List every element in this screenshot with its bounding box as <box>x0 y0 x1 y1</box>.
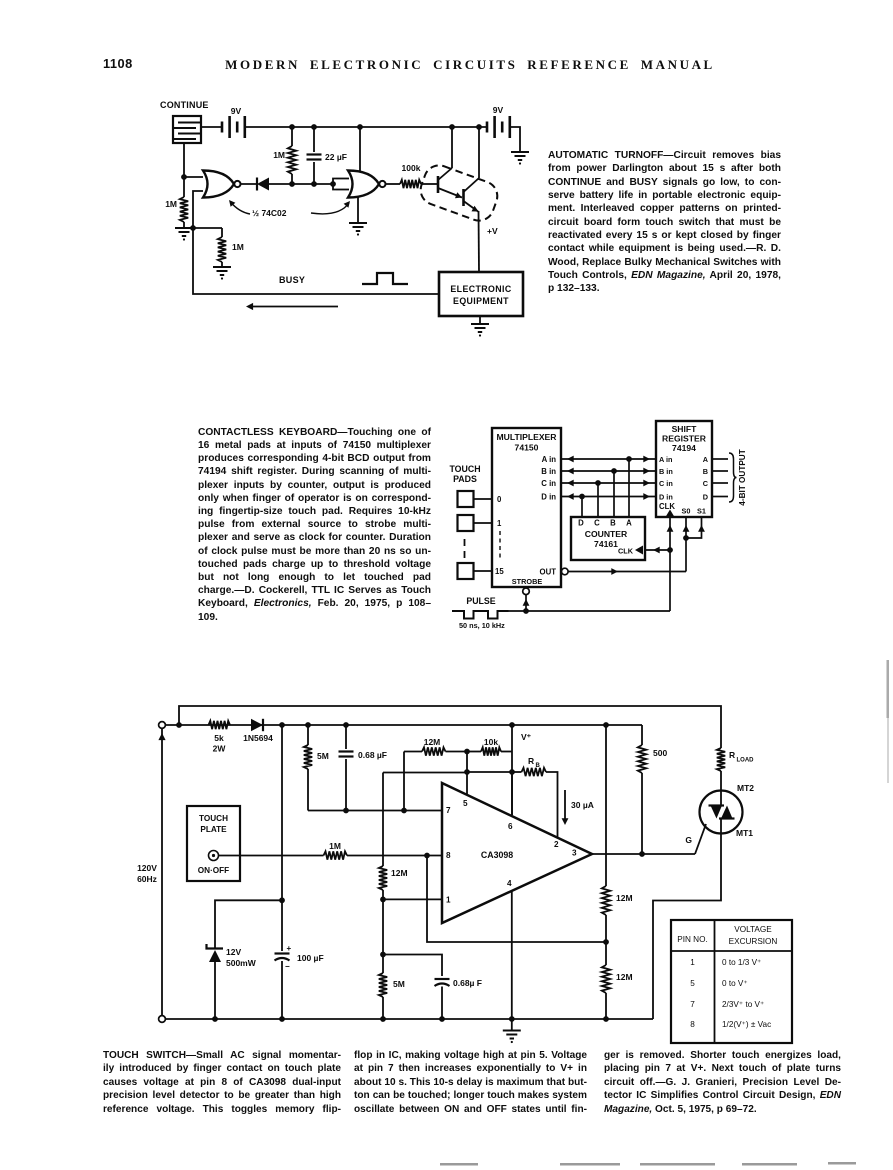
svg-text:1: 1 <box>446 896 451 905</box>
wire pin8 line right <box>347 855 442 857</box>
svg-text:2W: 2W <box>213 744 227 754</box>
svg-text:TOUCH: TOUCH <box>199 814 228 823</box>
label G <box>685 835 692 845</box>
wire counter A <box>628 459 630 517</box>
svg-text:0: 0 <box>497 495 502 504</box>
capacitor C2 0.68uF <box>339 725 388 811</box>
node rail-5M <box>305 722 311 728</box>
svg-text:120V: 120V <box>137 863 157 873</box>
wire pin8 branch down <box>427 856 606 943</box>
pin label B in (mux) <box>541 467 556 476</box>
mux OUT bubble <box>562 568 569 575</box>
label 120V 60Hz <box>137 863 157 884</box>
node rail-outer <box>176 722 182 728</box>
label 4-BIT OUTPUT <box>738 449 747 505</box>
node C2-pin7 <box>343 808 349 814</box>
svg-text:4-BIT OUTPUT: 4-BIT OUTPUT <box>738 449 747 505</box>
label 1/2 74C02 with arrows <box>229 200 350 218</box>
svg-text:9V: 9V <box>493 105 504 115</box>
svg-text:12M: 12M <box>616 972 633 982</box>
svg-text:22 µF: 22 µF <box>325 152 347 162</box>
svg-text:R: R <box>528 756 534 766</box>
dashed line inside mux <box>499 531 501 560</box>
svg-text:CONTINUE: CONTINUE <box>160 100 209 110</box>
wire pin7 line <box>308 810 442 812</box>
brace 4-bit output <box>729 453 737 502</box>
wire top rail <box>165 724 642 726</box>
svg-text:+V: +V <box>487 226 498 236</box>
svg-text:C in: C in <box>541 479 556 488</box>
touch pad 15 <box>458 563 493 579</box>
svg-text:STROBE: STROBE <box>512 577 543 586</box>
wire A line <box>561 456 656 463</box>
wire OUT to S0 <box>568 568 686 575</box>
touch pad 1 <box>458 515 493 531</box>
resistor R9 RB <box>512 756 558 838</box>
box SHIFT REGISTER 74194 <box>656 421 712 517</box>
svg-text:2: 2 <box>554 840 559 849</box>
resistor R8 10k <box>467 737 512 756</box>
ground below R3 <box>213 267 231 280</box>
pin label 15 <box>495 567 504 576</box>
transistor Q2 <box>464 127 480 272</box>
svg-text:ELECTRONIC: ELECTRONIC <box>450 284 511 294</box>
svg-text:5: 5 <box>463 799 468 808</box>
svg-text:60Hz: 60Hz <box>137 874 157 884</box>
resistor R15 12M <box>602 942 633 1019</box>
svg-text:8: 8 <box>446 851 451 860</box>
svg-text:+: + <box>287 944 292 953</box>
dashed outline around Darlington <box>416 161 501 225</box>
svg-text:MT1: MT1 <box>736 828 753 838</box>
label BUSY <box>279 275 305 285</box>
svg-text:D: D <box>703 493 708 502</box>
svg-text:SHIFT: SHIFT <box>672 424 698 434</box>
svg-text:1M: 1M <box>165 199 177 209</box>
svg-text:10k: 10k <box>484 737 498 747</box>
node D1-R1 <box>289 181 295 187</box>
node 5M2 top <box>380 952 386 958</box>
node rail-C1 <box>311 124 317 130</box>
svg-text:CLK: CLK <box>618 547 634 556</box>
svg-text:V⁺: V⁺ <box>521 732 532 742</box>
node rail-V+ <box>509 722 515 728</box>
svg-text:1M: 1M <box>232 242 244 252</box>
arrow 30uA <box>562 790 594 825</box>
wire 12M divider top <box>605 725 607 886</box>
label PULSE <box>466 596 495 606</box>
BUSY pulse waveform <box>362 273 408 284</box>
node rb row <box>509 769 515 775</box>
svg-text:100 µF: 100 µF <box>297 953 324 963</box>
svg-text:12M: 12M <box>616 893 633 903</box>
node btm pin4 <box>509 1016 515 1022</box>
capacitor C3 100uF <box>275 944 324 1019</box>
svg-text:B: B <box>703 467 708 476</box>
svg-text:C: C <box>703 479 709 488</box>
resistor R7 12M feedback <box>404 737 467 756</box>
wire SR output C <box>712 482 728 484</box>
node rail-C2 <box>343 722 349 728</box>
node D-counter <box>579 494 585 500</box>
svg-text:0.68 µF: 0.68 µF <box>358 750 387 760</box>
svg-text:PADS: PADS <box>453 474 477 484</box>
svg-text:D in: D in <box>659 493 673 502</box>
wire SR output B <box>712 470 728 472</box>
svg-text:12V: 12V <box>226 947 241 957</box>
pin label 0 <box>497 495 502 504</box>
ground below G2 <box>349 223 367 236</box>
node btm C3 <box>279 1016 285 1022</box>
node pin1 left <box>380 897 386 903</box>
svg-text:D in: D in <box>541 493 556 502</box>
terminal bottom-left <box>159 1016 166 1023</box>
ground main <box>503 1019 521 1043</box>
svg-text:B: B <box>536 763 541 769</box>
wire CLK to counter <box>645 547 670 554</box>
pin label S0 <box>682 507 691 516</box>
touch pad 0 <box>458 491 493 507</box>
node rail-12Mdiv <box>603 722 609 728</box>
node A-counter <box>626 456 632 462</box>
svg-text:74161: 74161 <box>594 539 618 549</box>
svg-text:REGISTER: REGISTER <box>662 434 707 444</box>
svg-text:VOLTAGE: VOLTAGE <box>734 925 772 934</box>
svg-text:1: 1 <box>690 958 695 967</box>
op NOR gate G1 (1/2 74C02) <box>203 171 240 198</box>
wire pulse line to CLK <box>509 610 671 612</box>
pin label S1 <box>697 507 706 516</box>
wire pad to battery B1 <box>201 126 222 128</box>
ground right of B2 <box>511 152 529 165</box>
node fb-pin7 <box>401 808 407 814</box>
svg-text:OUT: OUT <box>540 568 557 577</box>
wire D line <box>561 493 656 500</box>
svg-text:5: 5 <box>690 979 695 988</box>
svg-text:7: 7 <box>446 806 451 815</box>
svg-text:30 µA: 30 µA <box>571 800 594 810</box>
diode D1 <box>257 178 292 191</box>
wire <box>292 183 314 185</box>
wire zener branch <box>215 900 282 949</box>
label +V <box>487 226 498 236</box>
wire battery B2 to ground <box>510 127 520 151</box>
wire pin8 line left <box>219 855 324 857</box>
svg-text:500mW: 500mW <box>226 958 257 968</box>
svg-text:3: 3 <box>572 849 577 858</box>
svg-text:4: 4 <box>507 879 512 888</box>
pin label D in (sr) <box>659 493 673 502</box>
pin label C (sr out) <box>703 479 709 488</box>
node zener branch <box>279 897 285 903</box>
resistor R11 12M vertical <box>379 773 408 900</box>
svg-text:PULSE: PULSE <box>466 596 495 606</box>
node btm 5M <box>380 1016 386 1022</box>
svg-text:LOAD: LOAD <box>737 758 755 764</box>
wire counter B <box>613 471 615 517</box>
svg-text:COUNTER: COUNTER <box>585 529 628 539</box>
svg-text:B in: B in <box>541 467 556 476</box>
node divider mid <box>603 939 609 945</box>
svg-text:9V: 9V <box>231 106 242 116</box>
label TOUCH PADS <box>449 464 480 484</box>
wire C line <box>561 480 656 487</box>
svg-text:0.68µ F: 0.68µ F <box>453 978 482 988</box>
node btm zener <box>212 1016 218 1022</box>
svg-text:1N5694: 1N5694 <box>243 733 273 743</box>
wire pin1 line <box>383 898 442 900</box>
box MULTIPLEXER 74150 <box>492 428 561 587</box>
svg-text:50 ns, 10 kHz: 50 ns, 10 kHz <box>459 621 505 630</box>
node CLK junction <box>667 547 673 553</box>
wire pin6 stub <box>511 772 513 815</box>
pin label STROBE <box>512 577 543 586</box>
pin label 3 <box>572 849 577 858</box>
arrow signal direction <box>246 303 338 310</box>
node C-counter <box>595 480 601 486</box>
svg-text:EXCURSION: EXCURSION <box>729 937 778 946</box>
resistor R1 1M <box>273 127 296 184</box>
svg-text:12M: 12M <box>424 737 441 747</box>
wire fb down <box>403 752 405 811</box>
pin label 2 <box>554 840 559 849</box>
svg-text:7: 7 <box>690 1000 695 1009</box>
svg-text:0 to V⁺: 0 to V⁺ <box>722 979 748 988</box>
pulse waveform 50ns <box>452 611 509 619</box>
wire S0 vertical <box>683 517 690 572</box>
wire V+ vertical pin6 <box>511 725 513 815</box>
wire node to R3 <box>193 227 222 229</box>
pin label 4 <box>507 879 512 888</box>
pin label D (sr out) <box>703 493 708 502</box>
resistor R14 12M <box>602 886 633 942</box>
wire pin5 vertical <box>466 752 468 796</box>
mux STROBE bubble <box>523 588 530 595</box>
capacitor C1 22 µF <box>307 127 347 184</box>
node fb mid <box>464 749 470 755</box>
pin label C in (mux) <box>541 479 556 488</box>
svg-text:15: 15 <box>495 567 504 576</box>
wire MT1 return <box>653 834 721 1020</box>
pin label 1 <box>497 519 502 528</box>
svg-text:BUSY: BUSY <box>279 275 305 285</box>
resistor R5 5k 2W <box>209 721 231 754</box>
svg-text:MT2: MT2 <box>737 783 754 793</box>
svg-text:A: A <box>703 455 709 464</box>
pin label 8 <box>446 851 451 860</box>
wire gate1 lower input feedback <box>193 191 203 228</box>
wire top rail <box>245 126 487 128</box>
svg-text:D: D <box>578 519 584 528</box>
svg-text:G: G <box>685 835 692 845</box>
wire SR output A <box>712 458 728 460</box>
svg-text:MULTIPLEXER: MULTIPLEXER <box>497 432 558 442</box>
wire node to gate1 top input <box>184 176 203 178</box>
svg-text:5M: 5M <box>393 979 405 989</box>
resistor R16 RLOAD <box>717 748 754 791</box>
svg-text:0 to 1/3 V⁺: 0 to 1/3 V⁺ <box>722 958 761 967</box>
wire row2 <box>383 771 512 774</box>
pin label C in (sr) <box>659 479 673 488</box>
op-amp U1 CA3098 <box>442 783 592 923</box>
pin label D in (mux) <box>541 493 556 502</box>
resistor R13 500 <box>638 725 668 854</box>
counter CLK input triangle <box>635 546 643 555</box>
label 50 ns 10 kHz <box>459 621 505 630</box>
wire outer loop to triac <box>179 706 721 748</box>
node pin5 row <box>464 769 470 775</box>
capacitor C4 0.68uF <box>435 978 483 1019</box>
node strobe-pulse <box>523 608 529 614</box>
svg-text:½ 74C02: ½ 74C02 <box>252 208 287 218</box>
svg-text:B in: B in <box>659 467 673 476</box>
svg-text:1: 1 <box>497 519 502 528</box>
wire G2 out to R4 <box>386 183 400 185</box>
box ELECTRONIC EQUIPMENT <box>439 272 523 316</box>
node 500-out <box>639 851 645 857</box>
wire left vertical <box>158 728 165 1015</box>
resistor R4 100k <box>400 163 437 188</box>
touch pad CONTINUE label <box>160 100 209 110</box>
pin label 1 <box>446 896 451 905</box>
node rail-Q1 <box>449 124 455 130</box>
node G2 input tie <box>330 179 349 190</box>
scan artifact bottom bleed-through <box>440 1162 856 1166</box>
label MT1 <box>736 828 753 838</box>
node pin8 branch <box>424 853 430 859</box>
wire SR output D <box>712 496 728 498</box>
svg-text:12M: 12M <box>391 868 408 878</box>
svg-text:1/2(V⁺) ± Vac: 1/2(V⁺) ± Vac <box>722 1020 771 1029</box>
diode D2 1N5694 <box>243 719 273 743</box>
pin label 5 <box>463 799 468 808</box>
battery B1 9V <box>222 106 245 138</box>
terminal top-left <box>159 722 166 729</box>
box COUNTER 74161 <box>571 517 645 560</box>
node A (gate1 input) <box>181 174 187 180</box>
node btm divider <box>603 1016 609 1022</box>
resistor R6 5M <box>304 725 329 811</box>
svg-text:5M: 5M <box>317 751 329 761</box>
resistor R2 1M <box>165 177 188 227</box>
wire bottom rail <box>165 1018 653 1020</box>
wire strobe vertical <box>523 595 530 611</box>
svg-text:PIN NO.: PIN NO. <box>677 935 707 944</box>
svg-text:B: B <box>610 519 616 528</box>
pin label OUT <box>540 568 557 577</box>
touch plate contact symbol <box>209 851 219 861</box>
svg-text:S1: S1 <box>697 507 706 516</box>
wire to G2 inputs <box>314 183 333 185</box>
node rail-282 <box>279 722 285 728</box>
pin label 7 <box>446 806 451 815</box>
svg-text:TOUCH: TOUCH <box>449 464 480 474</box>
pin label 6 <box>508 822 513 831</box>
pin label A in (mux) <box>542 455 557 464</box>
wire B line <box>561 468 656 475</box>
wire pin3 output <box>592 853 695 855</box>
wire BUSY line <box>193 228 439 294</box>
resistor R12 5M <box>379 955 405 1020</box>
svg-text:74194: 74194 <box>672 443 696 453</box>
svg-text:A: A <box>626 519 632 528</box>
node btm C4 <box>439 1016 445 1022</box>
pin label B (sr out) <box>703 467 708 476</box>
node rail-gate2 <box>357 124 363 130</box>
svg-text:2/3V⁺ to V⁺: 2/3V⁺ to V⁺ <box>722 1000 764 1009</box>
node B (feedback/R3) <box>190 225 196 231</box>
wire rail to G2 top <box>359 127 361 172</box>
resistor R3 1M <box>218 228 244 266</box>
wire pin4 vertical <box>511 891 513 1019</box>
ground below R2 <box>175 228 193 241</box>
svg-text:1M: 1M <box>329 841 341 851</box>
pin label A (sr out) <box>703 455 709 464</box>
wire to C4 <box>383 955 442 977</box>
wire pad down to gate input node <box>183 143 185 177</box>
wire R11 lower <box>382 899 384 954</box>
touch pad CONTINUE (interleaved PC-board pattern) <box>173 116 201 143</box>
label V+ <box>521 732 532 742</box>
wire gate diagonal <box>695 824 706 854</box>
svg-text:CA3098: CA3098 <box>481 850 513 860</box>
svg-text:5k: 5k <box>214 733 224 743</box>
wire 282 vertical <box>281 725 283 951</box>
table voltage excursion <box>671 920 792 1043</box>
box TOUCH PLATE <box>187 806 240 881</box>
wire G2 bottom to ground <box>357 197 359 222</box>
svg-text:C in: C in <box>659 479 673 488</box>
wire SR CLK vertical <box>666 510 675 612</box>
ellipsis dashes pads <box>464 539 466 558</box>
svg-text:74150: 74150 <box>515 443 539 453</box>
svg-text:EQUIPMENT: EQUIPMENT <box>453 296 509 306</box>
svg-text:R: R <box>729 750 735 760</box>
svg-text:ON·OFF: ON·OFF <box>198 866 229 875</box>
pin label B in (sr) <box>659 467 673 476</box>
svg-text:1M: 1M <box>273 150 285 160</box>
op NOR gate G2 (1/2 74C02) <box>348 171 386 198</box>
pin label A in (sr) <box>659 455 673 464</box>
wire counter D <box>581 497 583 518</box>
svg-text:500: 500 <box>653 748 667 758</box>
ground below equipment box <box>471 316 489 337</box>
svg-text:A in: A in <box>542 455 557 464</box>
node B-counter <box>611 468 617 474</box>
svg-text:A in: A in <box>659 455 673 464</box>
wire G1 output to diode <box>241 183 257 185</box>
svg-text:100k: 100k <box>402 163 421 173</box>
svg-text:S0: S0 <box>682 507 691 516</box>
resistor R10 1M <box>324 841 348 860</box>
svg-text:6: 6 <box>508 822 513 831</box>
svg-text:−: − <box>285 962 290 971</box>
zener D3 12V 500mW <box>207 944 257 1019</box>
node S0-S1 <box>683 535 689 541</box>
node rail-R1 <box>289 124 295 130</box>
pin label CLK (sr) <box>659 502 675 511</box>
svg-text:CLK: CLK <box>659 502 675 511</box>
triac Q3 <box>700 791 743 834</box>
svg-text:C: C <box>594 519 600 528</box>
node rail-Q2 <box>476 124 482 130</box>
transistor Q1 <box>438 127 462 198</box>
svg-text:8: 8 <box>690 1020 695 1029</box>
battery B2 9V <box>487 105 510 138</box>
node D1-C1 <box>311 181 317 187</box>
wire S1 <box>686 517 705 538</box>
wire counter C <box>597 483 599 517</box>
